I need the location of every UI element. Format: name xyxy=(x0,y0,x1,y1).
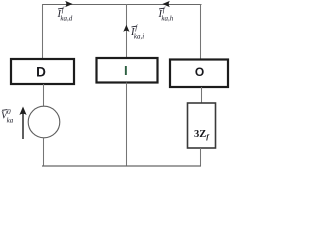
wire bottom rail xyxy=(42,165,201,167)
arrowhead current I_ka,d (points right on top rail) xyxy=(65,1,72,7)
box I xyxy=(97,58,158,83)
box O xyxy=(170,60,228,88)
box D xyxy=(11,59,74,84)
svg-text:D: D xyxy=(36,65,46,80)
wire top rail xyxy=(42,4,202,6)
wire left drop from top rail to box D xyxy=(42,4,44,59)
svg-text:O: O xyxy=(195,65,204,79)
wire from box D down to source circle xyxy=(43,84,45,107)
wire from impedance 3Zf down to bottom rail xyxy=(200,148,202,166)
wire right drop from top rail to box O xyxy=(200,4,202,59)
wire from source circle down to bottom rail xyxy=(43,138,45,167)
wire middle drop from top rail to box I xyxy=(126,4,128,58)
overbar of I_ka,h xyxy=(159,7,164,10)
source circle V_ka xyxy=(28,106,60,138)
overbar of V0_ka xyxy=(2,109,8,112)
arrowhead current I_ka,i (points up on middle wire) xyxy=(123,25,129,32)
arrowhead current I_ka,h (points left on top rail) xyxy=(162,1,169,7)
svg-text:I: I xyxy=(124,63,128,78)
arrow of source voltage (points up, left of circle) xyxy=(22,109,24,139)
wire middle from box I down to bottom rail xyxy=(126,83,128,167)
overbar of I_ka,d xyxy=(58,7,63,10)
wire from box O down to impedance 3Zf xyxy=(201,87,203,103)
overbar of I_ka,i xyxy=(132,25,137,28)
impedance box 3Zf xyxy=(188,103,216,148)
